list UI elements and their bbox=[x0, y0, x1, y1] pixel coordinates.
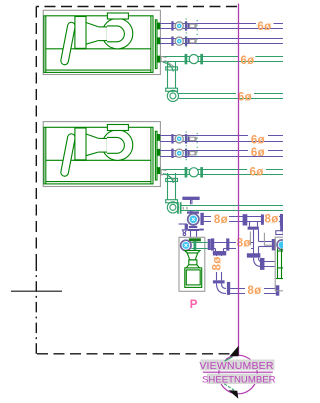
svg-text:SHEETNUMBER: SHEETNUMBER bbox=[202, 375, 276, 386]
green pipe 4 (lower header from pump2 drop) bbox=[181, 206, 283, 211]
ball valve below green pipe 4 bbox=[187, 211, 204, 231]
callout divider line bbox=[203, 371, 273, 373]
sheetnumber text bbox=[202, 374, 276, 386]
viewnumber text bbox=[199, 360, 274, 373]
elbow G to pipe H bbox=[217, 283, 227, 293]
dark green bar in feeder bbox=[189, 238, 201, 241]
drain fitting left of ball valve bbox=[179, 224, 188, 236]
gray reducer pump1 bbox=[161, 56, 175, 68]
pump P-1 bbox=[44, 13, 160, 72]
vertical branch from tee to lower cross pipe bbox=[254, 230, 259, 251]
right feeder valve bbox=[277, 240, 287, 250]
drop lines from ball valve to feeder bbox=[191, 231, 197, 237]
valve on pipe D bbox=[171, 149, 196, 158]
bottom arrow bbox=[224, 384, 238, 399]
valve on pipe A bbox=[171, 21, 196, 30]
label 6ø pipe D bbox=[251, 147, 265, 159]
valve on pipe B bbox=[171, 36, 196, 45]
pipe C (pump2 suction, 6in purple) bbox=[160, 136, 283, 142]
right edge equipment cluster bbox=[250, 232, 284, 291]
label 8ø pipe H bbox=[247, 285, 261, 297]
right feeder green internals bbox=[276, 249, 283, 279]
svg-text:8ø: 8ø bbox=[247, 285, 261, 297]
pipe E (8in purple from ball valve) bbox=[203, 217, 283, 222]
svg-text:6ø: 6ø bbox=[257, 21, 271, 33]
label 8ø pipe F bbox=[237, 238, 251, 250]
pipe D (pump2 discharge, 6in purple) bbox=[160, 151, 283, 157]
centerline dots pump2 valves bbox=[186, 131, 197, 162]
flange bottom pipe G bbox=[213, 280, 225, 283]
magenta match line bbox=[238, 4, 240, 356]
dashed viewport border bbox=[36, 7, 237, 354]
flange on pipe E right bbox=[261, 214, 264, 224]
green flange feeder bbox=[194, 241, 197, 250]
label 8ø pipe E bbox=[214, 214, 228, 226]
right equipment purple fittings bbox=[276, 226, 283, 234]
svg-text:8ø: 8ø bbox=[214, 214, 228, 226]
pipe F (8in purple feeder outlet) bbox=[211, 243, 254, 249]
gate valve stem and handle above ball valve bbox=[183, 197, 199, 211]
green pipe 2 (lower header from pump1 drop) bbox=[179, 94, 283, 99]
svg-text:8ø: 8ø bbox=[264, 214, 278, 226]
flange 1 on pipe F bbox=[211, 238, 214, 250]
centerline dots pump1 valves bbox=[186, 19, 197, 50]
cross pipe to right feeder valve bbox=[259, 242, 272, 247]
feeder isolation valve bbox=[181, 240, 191, 250]
top arrow bbox=[225, 346, 239, 361]
green pipe 3 (pump2 header) bbox=[160, 170, 283, 175]
check valve at right edge on pipe E bbox=[280, 214, 284, 226]
valve stem ticks in pipe bbox=[183, 207, 187, 210]
match line tick bbox=[11, 290, 62, 292]
pump 1 housekeeping pad bbox=[43, 10, 160, 74]
label 6ø green pipe 3 bbox=[249, 167, 263, 179]
svg-text:P: P bbox=[190, 299, 198, 311]
svg-text:VIEWNUMBER: VIEWNUMBER bbox=[199, 360, 274, 372]
label 6ø pipe C bbox=[251, 135, 265, 147]
pump 2 housekeeping pad bbox=[43, 122, 160, 187]
label 6ø green pipe 2 bbox=[238, 91, 252, 103]
tee on pipe E bbox=[243, 214, 259, 230]
flange pipe H right bbox=[276, 285, 280, 295]
pipe B (pump1 discharge, 6in purple) bbox=[160, 39, 283, 44]
green drop pump1 bbox=[163, 62, 178, 102]
tee down from pipe F bbox=[213, 249, 225, 255]
flange at right feeder valve bbox=[272, 239, 276, 250]
label 8ø pipe E right bbox=[264, 214, 278, 226]
valve on green pipe 3 bbox=[185, 167, 203, 177]
svg-text:6ø: 6ø bbox=[251, 135, 265, 147]
callout circle bbox=[219, 355, 258, 394]
pipe H (8in purple bottom) bbox=[230, 289, 276, 294]
gray reducer pump2 bbox=[161, 169, 175, 181]
valve on pipe C bbox=[171, 134, 196, 143]
lower elbow to equipment inlet bbox=[247, 247, 274, 270]
pump tag P bbox=[190, 299, 198, 311]
purple flange at pipe F start bbox=[208, 239, 211, 250]
feeder gray enclosure bbox=[179, 237, 205, 291]
green drop pump2 bbox=[163, 173, 178, 213]
label 6ø green pipe 1 bbox=[240, 55, 254, 67]
pipe A (pump1 suction, 6in purple) bbox=[160, 24, 283, 29]
label 6ø pipe A bbox=[257, 21, 271, 33]
svg-text:8ø: 8ø bbox=[212, 256, 224, 270]
svg-text:6ø: 6ø bbox=[251, 147, 265, 159]
label 8ø pipe G rotated bbox=[212, 256, 224, 270]
valve on green pipe 1 bbox=[185, 54, 203, 64]
feeder funnel and tank bbox=[185, 251, 202, 288]
vertical pipe G bbox=[217, 255, 222, 280]
green pipe from feeder valve bbox=[191, 243, 207, 249]
green pipe 1 (pump1 header) bbox=[160, 57, 283, 62]
svg-text:6ø: 6ø bbox=[249, 167, 263, 179]
flange pipe H bbox=[227, 282, 230, 295]
flange 2 on pipe F bbox=[226, 238, 229, 250]
svg-text:6ø: 6ø bbox=[238, 91, 252, 103]
green flange pair on pipe 4 bbox=[177, 202, 181, 214]
pump P-2 bbox=[44, 125, 160, 184]
svg-text:6ø: 6ø bbox=[240, 55, 254, 67]
